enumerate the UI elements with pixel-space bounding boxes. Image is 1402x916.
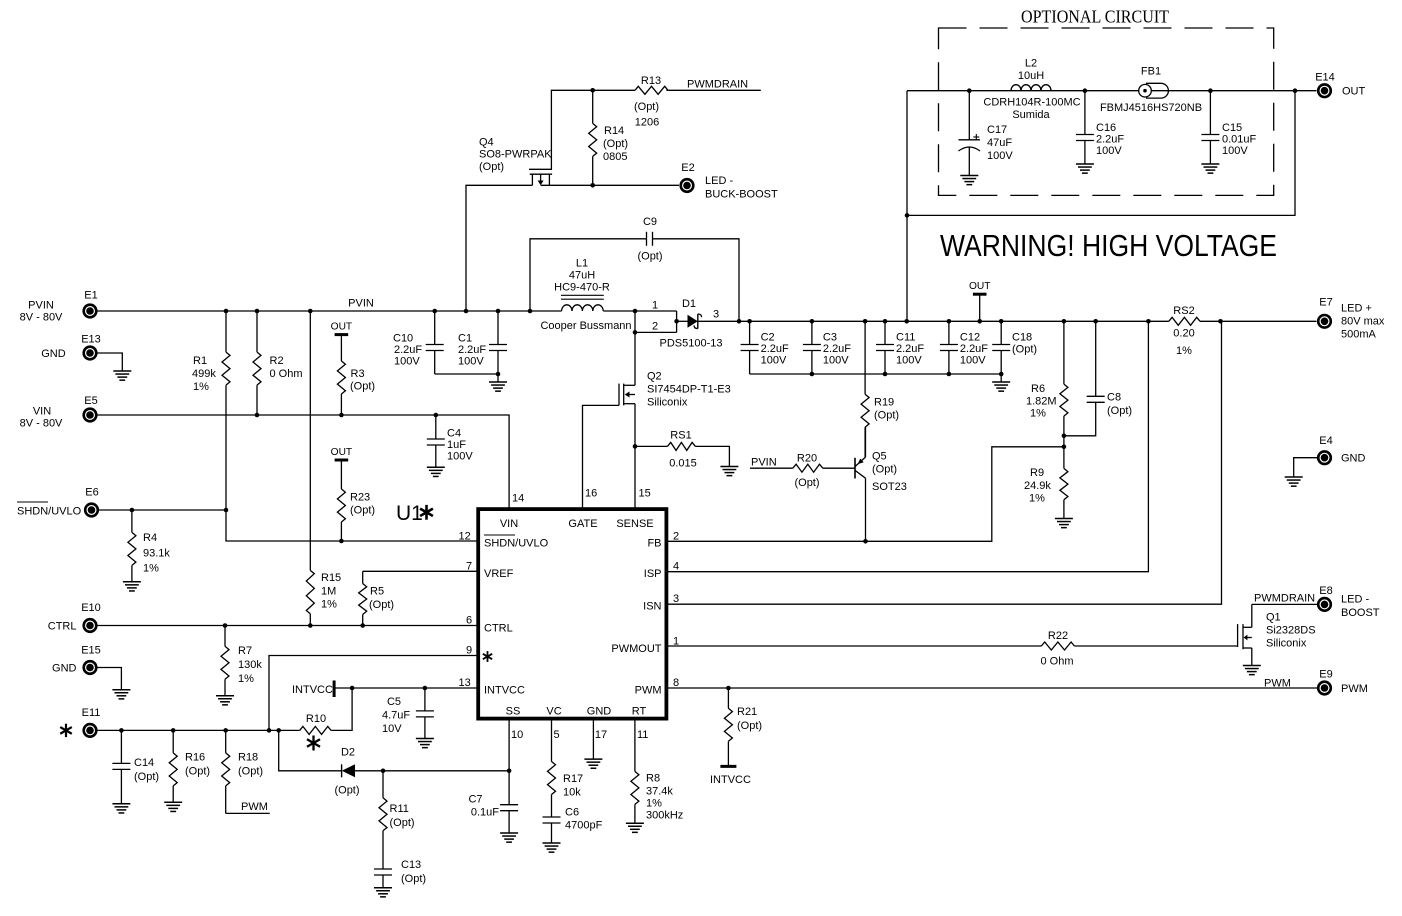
svg-text:C14: C14	[134, 757, 154, 769]
svg-text:INTVCC: INTVCC	[484, 685, 525, 697]
capacitor C11	[876, 321, 924, 374]
svg-text:(Opt): (Opt)	[334, 785, 359, 797]
svg-text:4: 4	[673, 561, 679, 573]
svg-text:(Opt): (Opt)	[350, 381, 375, 393]
capacitor C13	[374, 859, 426, 888]
svg-text:R19: R19	[874, 397, 894, 409]
capacitor C8	[1064, 321, 1132, 436]
svg-text:PWM: PWM	[1341, 683, 1368, 695]
svg-text:R7: R7	[238, 645, 252, 657]
svg-text:0.20: 0.20	[1173, 328, 1194, 340]
svg-text:100V: 100V	[394, 356, 420, 368]
wire U1 PWMOUT pin 1 to R22	[666, 636, 1041, 648]
svg-text:2: 2	[652, 321, 658, 333]
wire INTVCC to U1 pin 13	[334, 677, 478, 690]
wire CTRL line to U1 pin 6	[97, 615, 478, 628]
resistor R3	[337, 361, 375, 415]
wire U1 GND pin 17 to ground	[593, 719, 607, 760]
resistor RS2	[1169, 305, 1200, 357]
svg-text:(Opt): (Opt)	[350, 505, 375, 517]
capacitor C16	[1076, 91, 1125, 164]
svg-text:E14: E14	[1315, 72, 1335, 84]
svg-text:1%: 1%	[238, 673, 254, 685]
wire D1 cathode	[698, 309, 750, 324]
diode D1	[660, 298, 723, 350]
svg-text:FBMJ4516HS720NB: FBMJ4516HS720NB	[1100, 102, 1202, 114]
svg-text:E15: E15	[81, 645, 101, 657]
svg-text:47uF: 47uF	[987, 137, 1012, 149]
net label PVIN (R20)	[750, 457, 793, 469]
svg-text:VIN: VIN	[500, 518, 518, 530]
wire U1 VREF pin 7 to R5	[363, 561, 479, 573]
svg-text:SENSE: SENSE	[616, 518, 653, 530]
svg-text:FB1: FB1	[1141, 66, 1161, 78]
svg-text:2: 2	[673, 531, 679, 543]
ground	[489, 382, 507, 391]
resistor R6	[1026, 321, 1068, 447]
resistor R9	[1024, 447, 1068, 519]
transistor Q2	[619, 371, 731, 409]
optional circuit dashed box	[939, 7, 1274, 196]
diode D2	[334, 747, 359, 797]
wire Q4 to E2	[541, 183, 679, 188]
svg-text:E5: E5	[84, 395, 97, 407]
wire Q2 drain	[634, 332, 636, 385]
ground	[416, 739, 434, 748]
wire Q2 gate to U1 GATE pin	[583, 405, 620, 509]
wire U1 FB pin 2	[666, 445, 1066, 544]
svg-text:LED +: LED +	[1341, 303, 1372, 315]
svg-text:L1: L1	[576, 258, 588, 270]
wire VIN line	[97, 413, 509, 509]
svg-text:(Opt): (Opt)	[369, 599, 394, 611]
svg-text:0.01uF: 0.01uF	[1222, 134, 1257, 146]
terminal E1 PVIN	[20, 290, 98, 324]
svg-text:C1: C1	[458, 333, 472, 345]
wire Q4 source to PVIN	[466, 185, 532, 311]
svg-text:100V: 100V	[1096, 145, 1122, 157]
svg-text:(Opt): (Opt)	[634, 101, 659, 113]
svg-text:D1: D1	[682, 298, 696, 310]
svg-text:2.2uF: 2.2uF	[960, 343, 988, 355]
svg-text:E13: E13	[81, 334, 101, 346]
svg-text:GND: GND	[41, 348, 66, 360]
capacitor C9	[530, 216, 739, 321]
svg-text:(Opt): (Opt)	[185, 766, 210, 778]
svg-text:Q1: Q1	[1266, 612, 1281, 624]
svg-text:100V: 100V	[823, 355, 849, 367]
svg-text:BUCK-BOOST: BUCK-BOOST	[705, 189, 778, 201]
svg-text:(Opt): (Opt)	[794, 477, 819, 489]
capacitor C2	[741, 321, 789, 374]
svg-text:13: 13	[459, 677, 471, 689]
svg-text:8: 8	[673, 677, 679, 689]
wire E15 to ground	[97, 668, 121, 690]
ground	[500, 833, 518, 842]
svg-text:0.015: 0.015	[669, 458, 697, 470]
svg-text:Sumida: Sumida	[1012, 109, 1050, 121]
ground	[216, 696, 234, 705]
power tap INTVCC (R21)	[710, 766, 751, 786]
svg-text:R14: R14	[604, 125, 624, 137]
svg-text:14: 14	[512, 493, 524, 505]
svg-text:100V: 100V	[447, 451, 473, 463]
svg-text:2.2uF: 2.2uF	[823, 343, 851, 355]
svg-text:R11: R11	[390, 803, 409, 815]
wire Q2 source to U1 SENSE pin	[633, 404, 651, 509]
capacitor C17 polarized	[959, 91, 1014, 176]
svg-text:R17: R17	[563, 773, 583, 785]
svg-text:FB: FB	[647, 538, 661, 550]
capacitor C4	[427, 415, 474, 467]
svg-text:R8: R8	[646, 773, 660, 785]
resistor R1	[192, 311, 230, 393]
svg-text:R18: R18	[238, 752, 258, 764]
svg-text:C18: C18	[1012, 332, 1032, 344]
svg-text:0 Ohm: 0 Ohm	[270, 368, 303, 380]
capacitor C5	[382, 688, 434, 739]
svg-text:(Opt): (Opt)	[603, 138, 628, 150]
svg-text:R4: R4	[143, 532, 157, 544]
svg-text:CDRH104R-100MC: CDRH104R-100MC	[983, 97, 1080, 109]
power tap OUT (R23)	[331, 447, 353, 489]
op-amp U1 (LED driver IC)	[478, 509, 666, 718]
wire U1 SS pin 10 to C7	[509, 719, 523, 805]
terminal E11	[60, 707, 100, 738]
svg-text:8V - 80V: 8V - 80V	[20, 312, 63, 324]
svg-text:2.2uF: 2.2uF	[761, 343, 789, 355]
net label PWMDRAIN (E8)	[1252, 593, 1317, 605]
capacitor C18	[992, 321, 1037, 374]
svg-text:C10: C10	[393, 333, 413, 345]
wire U1 VC pin 5 to R17	[552, 719, 560, 762]
svg-text:C5: C5	[387, 696, 401, 708]
wire D2 to SS	[355, 769, 511, 774]
svg-text:CTRL: CTRL	[484, 623, 513, 635]
svg-text:(Opt): (Opt)	[238, 766, 263, 778]
svg-text:RT: RT	[632, 706, 647, 718]
svg-text:1.82M: 1.82M	[1026, 396, 1057, 408]
svg-text:6: 6	[466, 615, 472, 627]
wire optional circuit return loop	[905, 91, 1295, 322]
capacitor C6	[543, 807, 603, 844]
warning text	[940, 229, 1277, 263]
terminal E2 LED- BUCK-BOOST	[679, 162, 778, 201]
svg-text:(Opt): (Opt)	[737, 720, 762, 732]
svg-text:2.2uF: 2.2uF	[1096, 134, 1124, 146]
resistor R16	[169, 730, 210, 802]
ground	[427, 467, 445, 476]
ground	[543, 843, 561, 852]
svg-text:R23: R23	[350, 492, 370, 504]
svg-text:2.2uF: 2.2uF	[458, 344, 486, 356]
svg-text:9: 9	[466, 645, 472, 657]
svg-text:80V max: 80V max	[1341, 316, 1385, 328]
svg-text:1M: 1M	[321, 586, 336, 598]
svg-text:100V: 100V	[960, 355, 986, 367]
svg-text:0805: 0805	[603, 151, 627, 163]
ground	[1285, 477, 1303, 486]
svg-text:5: 5	[554, 729, 560, 741]
svg-text:499k: 499k	[192, 368, 216, 380]
svg-text:CTRL: CTRL	[48, 621, 77, 633]
svg-text:E10: E10	[81, 602, 101, 614]
svg-text:SI7454DP-T1-E3: SI7454DP-T1-E3	[647, 384, 731, 396]
svg-text:R3: R3	[351, 368, 365, 380]
svg-text:(Opt): (Opt)	[1012, 344, 1037, 356]
svg-text:130k: 130k	[238, 659, 262, 671]
svg-text:500mA: 500mA	[1341, 329, 1377, 341]
wire U1 SHDN pin 12 number	[459, 531, 471, 543]
terminal E10 CTRL	[48, 602, 101, 633]
svg-text:10uH: 10uH	[1018, 70, 1044, 82]
svg-text:PWM: PWM	[635, 685, 662, 697]
svg-text:1%: 1%	[143, 563, 159, 575]
svg-text:ISP: ISP	[644, 568, 662, 580]
svg-text:0 Ohm: 0 Ohm	[1040, 656, 1073, 668]
svg-text:(Opt): (Opt)	[479, 161, 504, 173]
svg-text:SOT23: SOT23	[872, 481, 907, 493]
ground	[992, 382, 1010, 391]
svg-text:PDS5100-13: PDS5100-13	[660, 338, 723, 350]
svg-text:C16: C16	[1096, 122, 1116, 134]
resistor R5	[359, 571, 394, 625]
svg-text:HC9-470-R: HC9-470-R	[554, 282, 610, 294]
capacitor C1	[458, 311, 507, 374]
svg-text:C7: C7	[468, 794, 482, 806]
svg-text:E6: E6	[85, 487, 98, 499]
svg-text:17: 17	[595, 729, 607, 741]
svg-text:C17: C17	[987, 124, 1007, 136]
ground	[123, 582, 141, 591]
svg-text:(Opt): (Opt)	[872, 464, 897, 476]
terminal E6 SHDN/UVLO	[17, 487, 99, 518]
svg-text:E1: E1	[84, 290, 97, 302]
ground	[112, 804, 130, 813]
wire U1 pin 9 to E11 line	[269, 645, 478, 731]
svg-text:7: 7	[466, 561, 472, 573]
svg-text:PVIN: PVIN	[348, 298, 374, 310]
svg-text:E9: E9	[1319, 669, 1332, 681]
ferrite bead FB1	[1100, 66, 1202, 115]
svg-text:ISN: ISN	[643, 601, 661, 613]
svg-text:E11: E11	[82, 707, 101, 719]
svg-text:100V: 100V	[761, 355, 787, 367]
svg-text:15: 15	[639, 488, 651, 500]
resistor R14	[589, 90, 628, 185]
svg-text:VREF: VREF	[484, 568, 514, 580]
svg-text:47uH: 47uH	[569, 270, 595, 282]
svg-text:(Opt): (Opt)	[390, 817, 415, 829]
resistor R7	[221, 626, 262, 696]
wire PVIN rail	[97, 309, 562, 314]
wire U1 ISN pin 3	[666, 321, 1221, 605]
svg-text:WARNING! HIGH VOLTAGE: WARNING! HIGH VOLTAGE	[940, 229, 1277, 263]
svg-text:R15: R15	[321, 572, 341, 584]
svg-text:8V - 80V: 8V - 80V	[20, 418, 63, 430]
svg-text:37.4k: 37.4k	[646, 786, 673, 798]
terminal E9 PWM	[1317, 669, 1368, 696]
svg-text:R20: R20	[797, 453, 817, 465]
capacitor C7	[468, 794, 518, 834]
ground	[584, 759, 602, 768]
svg-text:3: 3	[713, 309, 719, 321]
svg-text:0.1uF: 0.1uF	[471, 807, 499, 819]
svg-text:Si2328DS: Si2328DS	[1266, 625, 1316, 637]
wire E13 to ground	[97, 353, 122, 371]
svg-text:E7: E7	[1319, 297, 1332, 309]
svg-text:C2: C2	[761, 332, 775, 344]
node D1 pins 1 2	[603, 300, 679, 335]
svg-text:93.1k: 93.1k	[143, 548, 170, 560]
wire optional circuit top	[907, 88, 1317, 93]
net label PWMDRAIN	[666, 79, 760, 91]
svg-text:PWMDRAIN: PWMDRAIN	[687, 79, 748, 91]
svg-text:C6: C6	[565, 807, 579, 819]
svg-text:GND: GND	[52, 663, 77, 675]
ground	[112, 690, 130, 699]
resistor R4	[128, 510, 171, 582]
svg-text:PVIN: PVIN	[28, 300, 54, 312]
resistor R21	[724, 688, 762, 765]
svg-text:4.7uF: 4.7uF	[382, 710, 410, 722]
resistor R20	[793, 453, 855, 490]
resistor R10	[300, 688, 353, 751]
svg-text:L2: L2	[1025, 58, 1037, 70]
svg-text:VIN: VIN	[33, 406, 51, 418]
capacitor C15	[1201, 91, 1256, 164]
terminal E5 VIN	[20, 395, 98, 430]
svg-text:C3: C3	[823, 332, 837, 344]
net label PWM (R18)	[226, 801, 270, 813]
terminal E15 GND	[52, 645, 101, 676]
svg-text:C12: C12	[960, 332, 980, 344]
transistor Q4	[479, 137, 552, 186]
svg-text:4700pF: 4700pF	[565, 820, 603, 832]
resistor R22	[1040, 630, 1237, 668]
wire Q4 drain to R13	[551, 88, 635, 170]
svg-text:R10: R10	[306, 713, 326, 725]
wire U1 RT pin 11 to R8	[635, 719, 649, 772]
svg-text:E2: E2	[681, 162, 694, 174]
svg-text:11: 11	[637, 729, 648, 741]
ground	[1201, 164, 1219, 173]
wire E4 to ground	[1294, 458, 1317, 477]
svg-text:100V: 100V	[896, 355, 922, 367]
svg-text:3: 3	[673, 593, 679, 605]
wire E11 line	[97, 728, 300, 733]
svg-text:U1: U1	[396, 502, 423, 525]
svg-text:PWM: PWM	[241, 801, 268, 813]
svg-text:VC: VC	[546, 706, 561, 718]
transistor Q5	[855, 427, 907, 541]
inductor L2	[983, 58, 1080, 122]
terminal E14 OUT	[1315, 72, 1365, 99]
svg-text:1: 1	[673, 636, 679, 648]
svg-text:BOOST: BOOST	[1341, 607, 1380, 619]
svg-text:OUT: OUT	[331, 447, 353, 458]
svg-text:24.9k: 24.9k	[1024, 480, 1051, 492]
svg-text:PWM: PWM	[1264, 678, 1291, 690]
svg-text:10V: 10V	[382, 723, 402, 735]
svg-text:R22: R22	[1048, 630, 1068, 642]
terminal E4 GND	[1317, 435, 1366, 465]
svg-text:C8: C8	[1107, 392, 1121, 404]
svg-text:OUT: OUT	[969, 281, 991, 292]
svg-text:INTVCC: INTVCC	[292, 684, 333, 696]
svg-text:1%: 1%	[1030, 408, 1046, 420]
svg-text:SS: SS	[506, 706, 521, 718]
terminal E7 LED+	[1317, 297, 1385, 341]
resistor R13	[634, 75, 668, 129]
svg-text:(Opt): (Opt)	[874, 410, 899, 422]
resistor R18	[222, 730, 263, 813]
inductor L1	[540, 258, 631, 333]
capacitor C10	[393, 311, 444, 374]
svg-text:SO8-PWRPAK: SO8-PWRPAK	[479, 149, 552, 161]
svg-text:OUT: OUT	[1342, 86, 1366, 98]
svg-text:1: 1	[652, 300, 658, 312]
svg-text:GATE: GATE	[568, 518, 597, 530]
svg-text:PWMDRAIN: PWMDRAIN	[1254, 593, 1315, 605]
capacitor C12	[940, 321, 988, 374]
wire U1 VIN pin 14	[512, 493, 524, 505]
svg-text:2.2uF: 2.2uF	[394, 344, 422, 356]
resistor R17	[548, 762, 584, 818]
resistor R19	[861, 321, 899, 457]
ground	[960, 176, 978, 185]
svg-text:Q2: Q2	[647, 371, 662, 383]
svg-text:Siliconix: Siliconix	[647, 397, 688, 409]
resistor R11	[379, 771, 415, 869]
power tap OUT (rail)	[969, 281, 991, 321]
svg-text:R5: R5	[370, 586, 384, 598]
svg-text:GND: GND	[587, 706, 612, 718]
svg-text:R1: R1	[193, 355, 207, 367]
svg-text:Siliconix: Siliconix	[1266, 638, 1307, 650]
svg-text:(Opt): (Opt)	[401, 873, 426, 885]
resistor RS1	[635, 430, 729, 470]
svg-text:OPTIONAL CIRCUIT: OPTIONAL CIRCUIT	[1021, 7, 1169, 27]
svg-text:C13: C13	[401, 859, 421, 871]
svg-text:LED -: LED -	[1341, 594, 1369, 606]
svg-text:C4: C4	[447, 428, 461, 440]
svg-text:LED -: LED -	[705, 175, 733, 187]
svg-text:SHDN/UVLO: SHDN/UVLO	[484, 538, 549, 550]
wire E6 to U1 pin 12	[99, 385, 478, 543]
ground	[626, 823, 644, 832]
svg-text:C11: C11	[896, 332, 915, 344]
svg-text:100V: 100V	[1222, 145, 1248, 157]
svg-text:1206: 1206	[635, 117, 659, 129]
ground	[1243, 666, 1261, 675]
svg-text:PVIN: PVIN	[751, 457, 777, 469]
svg-text:R6: R6	[1031, 383, 1045, 395]
svg-text:1%: 1%	[1176, 345, 1192, 357]
svg-text:R21: R21	[737, 706, 757, 718]
svg-text:RS1: RS1	[670, 430, 691, 442]
label U1*	[396, 502, 433, 525]
ground	[374, 888, 392, 897]
svg-text:1%: 1%	[193, 381, 209, 393]
net label PVIN	[348, 298, 374, 310]
resistor R15	[306, 311, 341, 626]
resistor R8	[631, 771, 683, 823]
capacitor C3	[803, 321, 851, 374]
svg-text:12: 12	[459, 531, 471, 543]
svg-text:R13: R13	[641, 75, 661, 87]
svg-text:(Opt): (Opt)	[637, 251, 662, 263]
